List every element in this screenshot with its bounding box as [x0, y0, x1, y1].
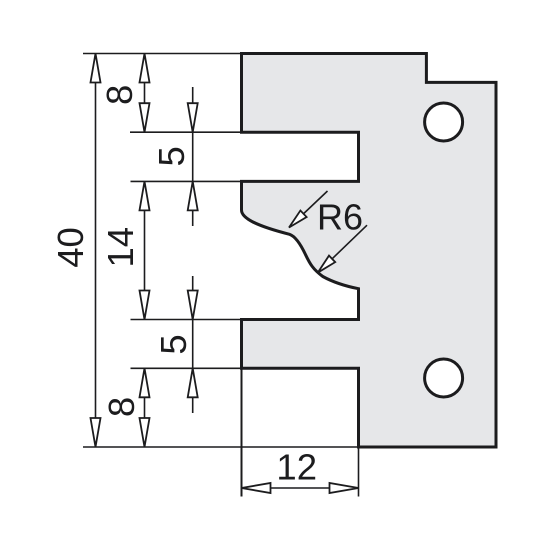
svg-text:8: 8 — [99, 85, 140, 105]
svg-text:14: 14 — [100, 227, 141, 268]
svg-text:5: 5 — [151, 146, 192, 166]
svg-text:5: 5 — [153, 334, 194, 354]
svg-text:R6: R6 — [317, 197, 363, 238]
svg-text:40: 40 — [50, 227, 91, 268]
svg-text:8: 8 — [101, 397, 142, 417]
svg-text:12: 12 — [276, 447, 317, 488]
